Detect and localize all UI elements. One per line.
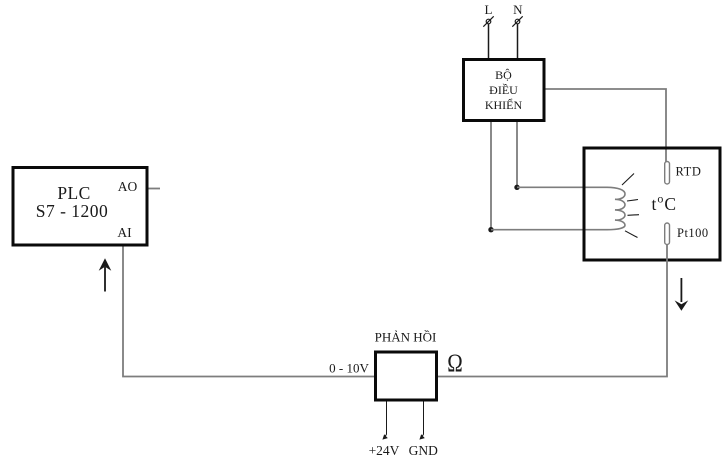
svg-text:N: N — [513, 2, 523, 17]
Pt100 sensor capsule — [665, 223, 670, 245]
svg-text:AO: AO — [118, 179, 138, 194]
wire AI down and right to feedback box — [123, 247, 374, 377]
svg-text:0 - 10V: 0 - 10V — [329, 361, 369, 376]
controller box U1 (BO DIEU KHIEN) — [464, 60, 545, 121]
wire Pt100 down and left to feedback box — [438, 245, 667, 377]
GND lead with arrow — [419, 402, 424, 440]
feedback box (PHAN HOI) — [376, 352, 437, 400]
svg-text:RTD: RTD — [676, 165, 702, 179]
oven box (furnace) — [584, 148, 720, 260]
PLC box U2 — [13, 168, 147, 246]
heater coil L1 with feed wires — [491, 187, 625, 229]
wire N to controller — [517, 24, 519, 59]
wire controller bottom left down to node — [490, 122, 492, 230]
wire L to controller — [488, 24, 490, 59]
svg-text:toC: toC — [652, 192, 678, 214]
svg-text:Pt100: Pt100 — [677, 226, 709, 240]
heat radiation dashes — [622, 174, 639, 238]
wire controller output right then down to RTD — [546, 89, 667, 162]
svg-text:BỘ: BỘ — [495, 68, 512, 82]
svg-text:KHIỂN: KHIỂN — [485, 97, 523, 112]
terminal L (slashed circle) — [483, 16, 493, 26]
junction node bottom — [488, 227, 493, 232]
svg-text:PHẢN HỒI: PHẢN HỒI — [375, 330, 437, 345]
terminal N (slashed circle) — [512, 16, 522, 26]
down arrow annotation — [675, 278, 689, 311]
svg-text:AI: AI — [117, 225, 132, 240]
junction node top — [514, 185, 519, 190]
svg-text:S7 - 1200: S7 - 1200 — [36, 201, 109, 221]
svg-text:L: L — [485, 2, 493, 17]
wire controller bottom right down to node — [516, 122, 518, 187]
RTD sensor capsule — [665, 162, 670, 185]
up arrow annotation — [99, 258, 112, 291]
svg-text:Ω: Ω — [447, 350, 463, 377]
svg-text:ĐIỀU: ĐIỀU — [489, 82, 518, 97]
wire AO stub — [149, 188, 161, 190]
svg-text:PLC: PLC — [57, 183, 90, 203]
svg-text:GND: GND — [409, 443, 438, 458]
+24V supply lead with arrow — [382, 402, 387, 440]
svg-text:+24V: +24V — [369, 443, 400, 458]
